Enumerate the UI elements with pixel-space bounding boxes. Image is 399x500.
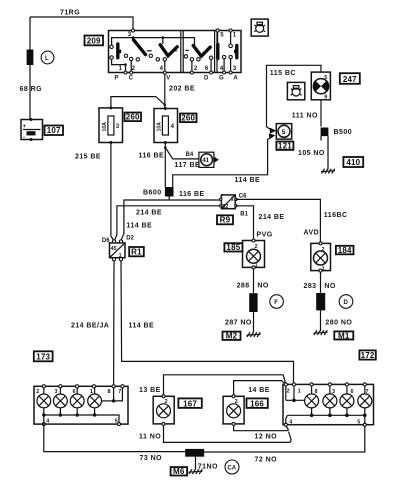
wire 14 BE lamp166 riser to right cluster pin 2: [234, 381, 286, 397]
svg-text:7: 7: [118, 389, 121, 395]
wire 202 BE from switch pin 4/V down to fuse 2: [164, 74, 166, 109]
position dash comp2: [185, 49, 188, 51]
svg-text:A: A: [233, 76, 238, 82]
svg-text:6: 6: [351, 389, 354, 395]
svg-text:12 NO: 12 NO: [255, 433, 278, 440]
boxed label M2: [223, 332, 241, 341]
switch pin 1 terminal (top): [229, 29, 232, 32]
wire C6/116BC to AVD lamp: [236, 199, 321, 243]
svg-text:287 NO: 287 NO: [225, 320, 252, 327]
svg-text:3: 3: [55, 389, 58, 395]
sub-switch C contacts: [124, 54, 127, 57]
switch internal bus from pin 3: [112, 38, 195, 46]
boxed label 172: [359, 350, 375, 360]
svg-text:52: 52: [222, 204, 228, 210]
sub-switch P lever: [116, 44, 119, 58]
wire 287 NO: [253, 312, 255, 333]
svg-text:B1: B1: [240, 212, 248, 218]
svg-text:209: 209: [87, 36, 101, 45]
splice on PVG ground wire: [249, 293, 257, 312]
wire 11 NO lamp167 to right cluster pin 4: [164, 425, 292, 442]
svg-text:M1: M1: [338, 331, 350, 340]
comp3 lever bar: [216, 45, 219, 59]
wire 68RG upper segment: [29, 17, 31, 50]
svg-text:+: +: [23, 124, 27, 130]
left cluster lamp 3: [70, 388, 84, 415]
wire 283 NO: [320, 272, 322, 293]
svg-text:L: L: [45, 56, 49, 62]
svg-text:13 BE: 13 BE: [139, 387, 161, 394]
wire B600 to R9 pin 1 side (116 BE): [169, 197, 220, 201]
position dash marks comp1: [147, 50, 152, 52]
svg-text:1: 1: [231, 197, 234, 203]
svg-text:288: 288: [237, 283, 250, 290]
svg-text:260: 260: [181, 114, 195, 123]
lighting switch assembly box: [109, 31, 242, 73]
sub-switch P contacts: [110, 45, 113, 48]
svg-text:4: 4: [46, 419, 49, 425]
svg-text:280 NO: 280 NO: [325, 319, 352, 326]
svg-text:214 BE: 214 BE: [259, 214, 285, 221]
svg-text:5: 5: [324, 75, 327, 81]
wire 114 BE from R1 to right lamp cluster pin 1: [121, 261, 294, 385]
svg-text:1: 1: [298, 389, 301, 395]
svg-text:68 RG: 68 RG: [20, 86, 43, 93]
boxed label 185: [224, 243, 242, 252]
sub-switch V stub to pin 4: [164, 61, 166, 72]
comp3 wire from pin 5 to lever: [217, 32, 219, 44]
svg-text:10A: 10A: [102, 122, 108, 132]
svg-text:B4: B4: [186, 152, 194, 158]
svg-text:2: 2: [287, 389, 290, 395]
svg-text:R1: R1: [131, 248, 142, 257]
svg-text:121: 121: [278, 142, 292, 151]
sub-switch D/G lever (comp2): [193, 46, 210, 57]
boxed label 167: [178, 398, 201, 408]
svg-text:73 NO: 73 NO: [140, 455, 163, 462]
boxed label R1: [129, 247, 144, 257]
svg-text:116 BE: 116 BE: [139, 153, 165, 160]
right cluster lamp 8: [305, 386, 319, 415]
wire 68RG lower segment: [29, 65, 31, 120]
svg-text:B600: B600: [143, 190, 162, 197]
right cluster pin5 wire 72 NO: [204, 415, 365, 452]
fuse box 2 (260, fuse 4): [154, 107, 178, 144]
boxed label M6: [171, 467, 188, 476]
svg-text:215 BE: 215 BE: [75, 154, 101, 161]
wire 111 NO motor to B500: [320, 100, 322, 127]
lamp icon box top-right of switch: [251, 19, 268, 36]
right cluster pins 2/1 internal node: [285, 386, 287, 400]
sub-switch C stub to pin 2: [130, 61, 132, 73]
svg-text:1: 1: [322, 266, 325, 272]
svg-text:G: G: [219, 76, 224, 82]
right cluster bottom bus: [288, 414, 365, 416]
left cluster top terminals: [42, 385, 45, 388]
svg-text:AVD: AVD: [304, 230, 320, 237]
svg-text:172: 172: [361, 351, 375, 360]
ground M2: [247, 332, 261, 337]
svg-text:D: D: [344, 300, 349, 306]
svg-text:C6: C6: [239, 194, 247, 200]
boxed label 173: [34, 351, 53, 361]
sub-switch P wire to pin 1: [112, 59, 126, 72]
svg-text:D2: D2: [126, 236, 134, 242]
boxed label 247: [340, 73, 360, 84]
switch compartment separator 2: [214, 31, 216, 73]
wire 71RG top feed: [30, 17, 133, 29]
wire 114 BE from 121 connector down-left into B600: [173, 136, 273, 187]
rear fog lamp 166: [223, 395, 244, 426]
wire 13 BE lamp167 riser to right cluster pin 2: [164, 375, 286, 397]
comp3 wire from pin 1: [230, 32, 232, 44]
sub-switch C lever: [134, 40, 146, 55]
svg-text:214 BE: 214 BE: [136, 210, 162, 217]
wire left branch to R1 D2: [121, 200, 169, 241]
right cluster bus to pin 4: [286, 415, 288, 424]
left cluster pin4 terminal: [42, 423, 45, 426]
svg-text:41: 41: [202, 158, 209, 164]
switch pin 3 terminal: [131, 29, 134, 32]
switch compartment separator 1: [180, 31, 182, 73]
right cluster top terminals: [284, 383, 287, 386]
relay R1 (45): [110, 240, 126, 261]
svg-text:D6: D6: [102, 238, 110, 244]
svg-text:111 NO: 111 NO: [292, 112, 318, 119]
ground M6: [189, 469, 203, 474]
svg-text:72 NO: 72 NO: [255, 457, 278, 464]
boxed label R9: [217, 215, 233, 224]
svg-text:114 BE: 114 BE: [127, 223, 153, 230]
boxed label 184: [336, 246, 354, 255]
svg-text:247: 247: [343, 75, 357, 84]
circle CA: [225, 460, 239, 474]
wire 73 NO from left cluster pin 4: [44, 415, 185, 452]
splice M6 on 73/72 NO wire: [185, 449, 204, 457]
sub-switch V lever: [160, 45, 177, 56]
splice on AVD ground wire: [316, 293, 325, 310]
svg-text:M2: M2: [226, 332, 238, 341]
switch pin 5 terminal: [216, 29, 219, 32]
boxed label 410: [343, 157, 363, 167]
branch wire 117 BE to component 41: [165, 148, 199, 159]
svg-text:166: 166: [250, 399, 264, 408]
svg-text:410: 410: [346, 158, 360, 167]
svg-text:283: 283: [304, 283, 317, 290]
wire R9 pin 52 to R1 D6: [115, 206, 221, 241]
fuse box 1 (260, fuse 3): [99, 106, 123, 144]
motor/fan 247: [311, 72, 330, 100]
svg-text:14 BE: 14 BE: [248, 387, 270, 394]
right cluster lamp 3: [323, 386, 337, 415]
boxed label 260 (fuse2): [180, 114, 197, 123]
arrowhead 115BC into 121: [270, 128, 277, 134]
left cluster lamp 1: [37, 388, 51, 415]
wire 288 NO: [253, 269, 255, 293]
left cluster lamp 2: [54, 388, 68, 415]
right cluster lamp 7: [358, 386, 372, 415]
svg-text:107: 107: [47, 126, 61, 135]
wire 71 NO to ground: [195, 457, 197, 470]
svg-text:NO: NO: [324, 283, 336, 290]
comp2 contacts: [184, 55, 187, 58]
wire 214 BE/JA from R1 to left lamp cluster pin 8: [113, 261, 115, 387]
link node to lamp4: [102, 400, 114, 402]
sensor/connector 41: [199, 152, 219, 167]
svg-text:5: 5: [357, 419, 360, 425]
fog lamp AVD 184: [311, 242, 331, 272]
boxed label 166: [247, 398, 268, 408]
boxed label 107: [45, 126, 64, 136]
svg-text:M6: M6: [173, 467, 185, 476]
svg-text:1: 1: [255, 263, 258, 269]
comp2 stub pin 2: [191, 61, 193, 73]
svg-text:45: 45: [111, 246, 117, 252]
svg-text:184: 184: [338, 246, 352, 255]
svg-text:D: D: [204, 76, 209, 82]
rear fog lamp 167: [153, 395, 174, 426]
wire 12 NO lamp166 to right cluster pin 4: [234, 425, 289, 430]
svg-text:4: 4: [289, 419, 292, 425]
indicator circle L: [41, 51, 54, 64]
boxed label 121: [276, 142, 293, 151]
boxed label 209: [85, 36, 104, 46]
svg-text:173: 173: [36, 353, 50, 362]
right cluster pin4 terminal: [284, 423, 287, 426]
wire 280 NO: [320, 310, 322, 331]
wire 215 BE fuse1 down to R1 D6: [111, 143, 114, 242]
wire 105 NO: [320, 136, 322, 140]
svg-text:F: F: [274, 300, 278, 306]
svg-text:NO: NO: [257, 283, 269, 290]
right cluster lamp 6: [340, 386, 354, 415]
ground 410: [321, 169, 335, 174]
left cluster pin8 internal wire and node: [113, 388, 115, 401]
svg-text:114 BE: 114 BE: [129, 323, 155, 330]
svg-text:167: 167: [183, 399, 197, 408]
svg-text:115 BC: 115 BC: [270, 70, 296, 77]
svg-text:71RG: 71RG: [60, 10, 80, 17]
svg-text:11 NO: 11 NO: [139, 434, 161, 441]
connector R9 (52): [220, 195, 238, 210]
splice B600: [165, 187, 174, 197]
inline fuse (black) on 68RG: [27, 50, 34, 66]
sub-switch V pivot stub: [162, 38, 164, 45]
svg-text:2: 2: [36, 389, 39, 395]
svg-text:260: 260: [126, 113, 140, 122]
svg-text:117 BE: 117 BE: [175, 162, 201, 169]
left cluster bottom bus: [44, 415, 119, 424]
sub-switch V contacts: [149, 54, 152, 57]
comp3 stub pin 4: [223, 59, 225, 73]
svg-text:V: V: [166, 76, 170, 82]
left cluster lamp 4: [88, 388, 102, 415]
svg-text:9: 9: [324, 94, 327, 100]
fog lamp PVG 185: [243, 239, 265, 269]
svg-text:202 BE: 202 BE: [169, 86, 195, 93]
svg-text:5: 5: [282, 129, 286, 136]
svg-text:8: 8: [108, 389, 111, 395]
svg-text:P: P: [115, 76, 119, 82]
wire B1/214BE to PVG lamp: [236, 206, 254, 241]
svg-text:114 BE: 114 BE: [235, 177, 261, 184]
svg-text:185: 185: [226, 243, 240, 252]
battery 107: [21, 118, 43, 141]
comp3 stub pin 3: [230, 59, 232, 73]
right lamp cluster box 172: [283, 384, 374, 424]
svg-text:116 BE: 116 BE: [179, 191, 205, 198]
circle D: [339, 295, 353, 309]
svg-text:71NO: 71NO: [198, 464, 218, 471]
ground M1: [314, 330, 328, 335]
left lamp cluster box 173: [34, 386, 128, 424]
lamp icon box (inside 115BC loop): [287, 82, 304, 99]
svg-text:PVG: PVG: [257, 232, 273, 239]
svg-text:10A: 10A: [157, 122, 163, 132]
arrowhead 114BE into 121: [269, 133, 276, 139]
boxed label 260 (fuse1): [125, 113, 142, 122]
wire 116 BE fuse2 down to B600: [164, 143, 166, 188]
comp3 contact circles: [229, 44, 233, 48]
switch unit 121 (circle 5): [276, 124, 291, 140]
wire 115 BC loop: motor pin5 up, left, down to 121: [267, 65, 322, 130]
svg-text:-: -: [23, 135, 25, 141]
svg-text:B500: B500: [334, 129, 353, 136]
link node to pin 7: [114, 388, 123, 401]
svg-text:C: C: [129, 76, 134, 82]
svg-text:214 BE/JA: 214 BE/JA: [71, 323, 109, 330]
comp2 stub pin 6: [210, 60, 212, 73]
svg-text:R9: R9: [220, 216, 231, 225]
svg-text:116BC: 116BC: [324, 212, 348, 219]
boxed label M1: [334, 331, 353, 340]
branch wire from 202BE to fuse 1: [111, 97, 165, 108]
comp3 right contact bar: [235, 45, 238, 57]
splice B500: [321, 128, 329, 137]
svg-text:CA: CA: [227, 466, 236, 472]
svg-text:1: 1: [119, 253, 122, 259]
svg-text:105 NO: 105 NO: [298, 150, 325, 157]
circle F: [270, 295, 284, 309]
